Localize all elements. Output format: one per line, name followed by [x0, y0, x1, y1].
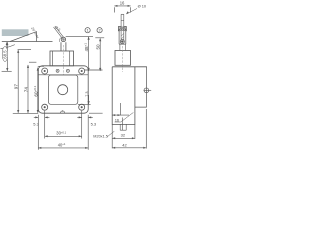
svg-text:2: 2: [99, 28, 101, 33]
svg-text:32: 32: [121, 133, 126, 138]
svg-text:25° max: 25° max: [30, 26, 40, 39]
svg-text:74: 74: [24, 87, 29, 93]
svg-text:68.5: 68.5: [3, 50, 8, 59]
svg-text:M20x1.5: M20x1.5: [93, 135, 108, 139]
svg-text:97: 97: [14, 84, 19, 90]
svg-text:7.3: 7.3: [85, 92, 89, 97]
svg-text:30+0.1: 30+0.1: [56, 131, 66, 136]
svg-text:42: 42: [122, 142, 127, 147]
svg-text:Ø 10: Ø 10: [138, 4, 147, 9]
svg-text:1: 1: [87, 28, 89, 33]
svg-text:48+1: 48+1: [84, 43, 89, 52]
svg-text:5.3: 5.3: [33, 121, 39, 126]
svg-text:16: 16: [120, 0, 125, 5]
svg-text:16: 16: [115, 117, 120, 122]
svg-text:40+1: 40+1: [58, 142, 66, 147]
svg-text:50: 50: [96, 44, 101, 50]
svg-text:Ø 6: Ø 6: [54, 25, 61, 32]
svg-text:5.3: 5.3: [91, 121, 97, 126]
